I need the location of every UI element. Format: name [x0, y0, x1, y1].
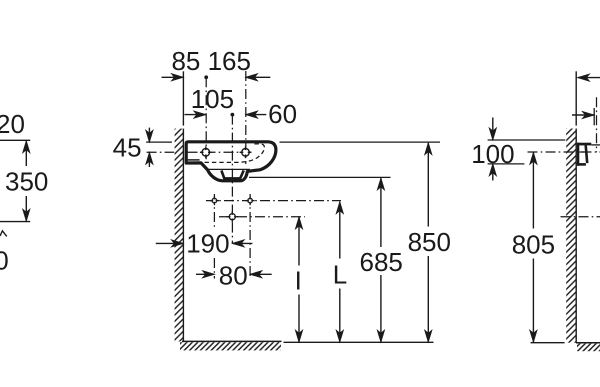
dimension 85 arrow — [162, 76, 184, 78]
svg-text:165: 165 — [208, 46, 251, 76]
drain plate line — [208, 168, 251, 170]
front floor line — [182, 340, 282, 342]
805 baseline — [531, 342, 565, 344]
holes centerline H0 — [147, 151, 175, 153]
dimension 45 arrows — [148, 128, 150, 142]
hidden inner rim (dashed) — [205, 144, 265, 163]
svg-text:105: 105 — [191, 84, 234, 114]
front wall face line — [182, 129, 184, 342]
dimension L line — [339, 202, 341, 259]
fixing centerline V4 — [249, 194, 251, 279]
svg-text:I: I — [295, 265, 302, 295]
drain cup — [221, 170, 243, 178]
side holes centerline — [528, 151, 600, 153]
svg-text:20: 20 — [0, 109, 25, 139]
side 100 upper reference line — [488, 139, 566, 141]
dimension dot on V1 — [204, 75, 208, 79]
centerline across slot — [579, 151, 584, 153]
centerline V5 (right tap hole) — [245, 71, 247, 164]
svg-text:0: 0 — [0, 246, 9, 276]
svg-text:685: 685 — [360, 247, 403, 277]
dimension 190 arrows — [156, 242, 183, 244]
fixing centerline H1 — [206, 200, 341, 202]
right fixing point — [248, 198, 253, 203]
drain bottom reference line to 685 — [249, 176, 391, 178]
svg-text:85: 85 — [171, 46, 200, 76]
top reference line to 850 — [280, 141, 441, 143]
dimension 80 arrows — [196, 273, 214, 275]
side tap extension tick — [593, 108, 595, 125]
side profile rim line (tap deck, cut) — [591, 144, 600, 146]
side wall face line — [575, 129, 577, 343]
svg-text:80: 80 — [219, 261, 248, 291]
fixing centerline V3 — [213, 194, 215, 228]
drain point — [229, 214, 235, 220]
dimension 60 arrow — [246, 114, 266, 116]
svg-text:45: 45 — [113, 133, 142, 163]
dimension baseline (floor level) — [284, 341, 434, 343]
side tap dimension arrow (cut) — [572, 114, 594, 116]
side 100 lower reference line — [488, 163, 525, 165]
svg-text:805: 805 — [512, 229, 555, 259]
front floor hatching — [180, 342, 281, 350]
drain centerline H2 — [219, 216, 305, 218]
right mounting hole — [242, 149, 250, 157]
front wall hatching — [175, 129, 184, 342]
dimension 350 arrows — [25, 141, 27, 166]
dimension 685 line — [380, 178, 382, 247]
leader arrowhead fragment — [0, 231, 7, 237]
dimension I line — [298, 217, 300, 265]
left fixing point — [212, 198, 217, 203]
svg-text:60: 60 — [268, 99, 297, 129]
svg-text:100: 100 — [471, 139, 514, 169]
dimension 805 line — [532, 153, 534, 229]
dimension 165 arrow — [246, 76, 270, 78]
side tap centerline — [596, 97, 598, 152]
side floor hatching — [577, 344, 600, 352]
basin slot line — [188, 159, 200, 161]
dimension 100 arrows — [492, 118, 494, 140]
left view lower reference line — [0, 221, 30, 223]
dimension 850 line — [427, 143, 429, 227]
svg-text:850: 850 — [408, 227, 451, 257]
basin side profile — [577, 143, 591, 146]
centerline V1 (left tap hole) — [205, 77, 207, 163]
side drain centerline — [561, 216, 600, 218]
45 top reference line — [146, 141, 172, 143]
centerline V2 (product axis) — [231, 115, 233, 244]
svg-text:L: L — [333, 259, 347, 289]
side wall hatching — [566, 129, 576, 343]
left mounting hole — [202, 149, 210, 157]
left view upper reference line — [0, 139, 30, 141]
basin front outline — [186, 142, 276, 181]
holes centerline inside basin — [188, 151, 252, 153]
extension line above wall — [182, 71, 184, 125]
side top dimension arrow (cut) — [578, 77, 600, 79]
svg-text:350: 350 — [5, 167, 48, 197]
side extension line above wall — [575, 71, 577, 125]
dimension 105 arrow — [185, 114, 206, 116]
svg-text:190: 190 — [186, 228, 229, 258]
side floor line — [576, 342, 600, 344]
dimension dot on V2 — [231, 113, 235, 117]
